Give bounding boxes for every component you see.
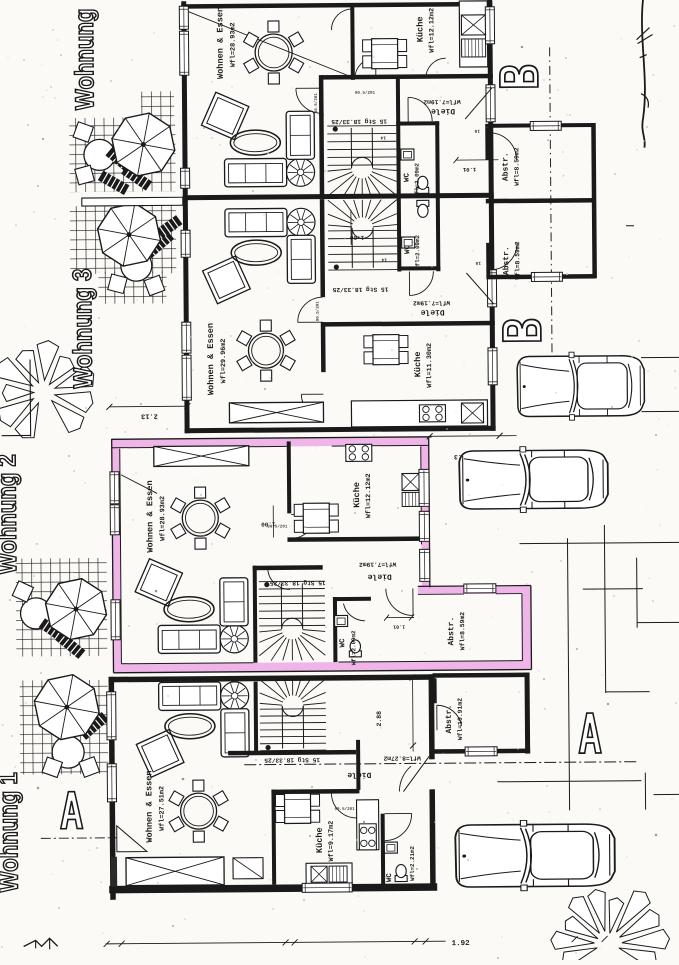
wash basin [402,237,415,248]
entry arc A [399,766,411,791]
entry door leaf unit1 [465,88,492,119]
pink abst right wall [522,586,532,670]
svg-text:10: 10 [475,260,481,266]
left wall unit A [109,677,116,900]
car1 bay line top [641,356,679,358]
pink kitchen wall [287,441,292,513]
svg-text:Abstr.: Abstr. [502,246,511,275]
bottom dimension line [106,941,446,944]
terrace table 2 [121,250,152,281]
stairs unit 2 [328,229,397,232]
window [419,469,429,506]
lounger [79,712,109,740]
door wc 2 [409,271,433,295]
svg-text:Abstr.: Abstr. [445,705,454,734]
door wc 1 [408,97,432,121]
door abst 2 [490,243,517,270]
svg-text:Abstr.: Abstr. [501,152,510,181]
svg-text:Wohnen & Essen: Wohnen & Essen [145,480,156,552]
svg-text:Diele: Diele [347,770,371,779]
svg-text:Diele: Diele [431,106,455,115]
svg-text:15 Stg 18.33/25: 15 Stg 18.33/25 [331,118,387,125]
kitchen table unit1 [363,40,374,52]
dining table unit 2 [248,333,283,368]
wc wall 1 [396,121,439,125]
svg-text:1.92: 1.92 [452,939,471,948]
svg-text:Wfl=7.19m2: Wfl=7.19m2 [359,561,396,568]
sideboard pink [154,446,249,467]
pink wc wall [333,597,338,662]
unit A kitchen walls [271,790,276,885]
coffee table [231,240,281,265]
dim 2.88 [412,677,415,751]
svg-text:14: 14 [380,135,386,140]
abst top wall [485,123,595,128]
letter B house entry 1 [500,65,538,87]
scan smudge [111,857,117,887]
abstA right wall [525,673,531,754]
sofa group unit A [136,682,250,778]
armchair [203,256,251,304]
lounger [98,171,130,195]
toilet [395,865,407,882]
door living unit1 [296,88,321,113]
sofa [158,625,220,653]
cut label Wohnung 1 [0,773,23,892]
svg-text:Wfl=7.19m2: Wfl=7.19m2 [413,299,450,306]
dim line 1.00 pink [272,506,274,538]
unit 1 kitchen wall [350,7,355,80]
door abst 1 [489,133,516,160]
label Wohnung top [74,10,99,110]
pink unit roof slope line [121,474,157,493]
pink left wall [112,440,122,673]
dim line 1.00 u2 [350,210,352,245]
wash basin [401,149,414,160]
pink top wall [112,437,429,447]
window [531,272,562,281]
side sofa [221,709,249,757]
svg-text:Küche: Küche [315,827,325,853]
bottom wall unit 2 [185,426,496,433]
car1 bay line bottom [641,410,679,412]
svg-text:WC: WC [385,873,394,883]
svg-text:15 Stg 18.33/25: 15 Stg 18.33/25 [264,756,320,763]
window [182,355,191,400]
unit A wc [381,814,386,885]
terrace hatch pink unit [16,558,108,657]
planter terrace divider [82,197,183,206]
lounger [144,231,174,259]
divide wall units 1-2 [183,193,494,200]
sofa group unit 2 [202,208,316,304]
pink bottom wall [113,661,531,673]
car 3 [455,820,615,892]
svg-text:10: 10 [474,128,480,134]
svg-text:WC: WC [338,638,347,648]
round chair [286,158,314,186]
coffee table [164,597,214,622]
toilet [417,176,429,193]
letter A unit A [60,792,82,829]
side sofa [286,111,314,159]
svg-text:Küche: Küche [415,16,425,42]
pink kitchen bottom wall [287,536,421,542]
svg-text:Wfl=9.17m2: Wfl=9.17m2 [327,821,336,862]
parking line vertical [567,538,569,810]
window [110,505,119,535]
svg-text:Wfl=7.19m2: Wfl=7.19m2 [423,98,460,105]
door arc diele 1 [355,58,376,79]
dining table unit A [180,793,216,829]
wc wall u2 [397,197,402,272]
stove [359,824,376,850]
sofa group unit 1 [201,91,315,187]
svg-text:Wfl=2.21m2: Wfl=2.21m2 [409,846,416,881]
stairs unit A [260,708,326,711]
terrace chair [42,757,62,777]
boundary dashed vertical [550,47,552,355]
unit A entry door [403,756,429,791]
wash basin [384,842,397,853]
armchair [135,559,182,606]
window [181,230,190,257]
sink [461,403,483,423]
svg-text:Wfl=8.59m2: Wfl=8.59m2 [459,612,466,651]
lounger [39,618,70,644]
door kitchen-diele 1 [426,58,446,78]
terrace chair [75,165,95,185]
svg-text:1.01: 1.01 [393,624,405,630]
door kitchen pink [291,514,315,538]
lounger [105,147,135,175]
dining table pink [182,500,218,536]
terrace chair [12,581,33,602]
kitchen table pink [294,504,305,516]
svg-text:1.00: 1.00 [261,521,276,528]
appliance [329,866,347,882]
window [181,168,190,188]
abst right wall [591,123,597,278]
site corner h [2,434,31,436]
cut label Wohnung 2 [0,455,22,574]
window [465,747,497,756]
appliance [402,492,419,506]
door abst pink [386,588,413,615]
svg-text:Wohnen & Essen: Wohnen & Essen [215,7,226,79]
parasol 4 [34,675,99,740]
sink [461,15,485,35]
right wall unit A upper [429,674,435,759]
terrace chair [79,757,100,778]
svg-text:Wfl=2.09m2: Wfl=2.09m2 [414,162,421,197]
car 1 [517,352,645,421]
svg-text:Wfl=12.12m2: Wfl=12.12m2 [427,8,436,53]
coffee table [230,130,280,155]
stair shaft left wall unit1 [319,113,324,196]
site line [497,781,641,782]
terrace hatch unit1 [141,91,174,117]
svg-text:1.01: 1.01 [462,166,476,173]
site dash-dot line [244,762,638,765]
unit 1 stair-wc wall [396,79,401,197]
side sofa [287,235,315,283]
terrace chair [108,274,128,294]
pink abst top wall [418,586,531,595]
window [179,31,188,75]
window [111,600,120,640]
window [486,85,495,122]
unit 2 kitchen counter [351,400,487,427]
car 2 [459,446,608,513]
svg-text:Wfl=8.27m2: Wfl=8.27m2 [383,754,420,761]
window A bottom [302,883,352,892]
window [419,511,429,541]
appliance [462,39,486,57]
terrace table 4 [52,736,84,768]
dim 2.13 [109,405,187,408]
svg-text:Wfl=8.59m2: Wfl=8.59m2 [513,147,520,186]
svg-text:Wfl=28.93m2: Wfl=28.93m2 [228,22,237,67]
tick right of abst [626,225,634,227]
toilet [349,640,361,657]
door kitchen 2 [301,394,323,416]
window [110,472,119,504]
terrace chair [73,122,93,142]
stove [346,444,372,461]
window [179,6,188,29]
kitchen table A [275,794,286,806]
door abstA [437,705,462,726]
stairs pink unit [259,580,325,583]
svg-text:WC: WC [403,244,412,254]
window [487,270,496,307]
pink diele wall [253,566,258,663]
lounger [55,631,85,659]
svg-text:1.00: 1.00 [349,234,364,241]
cabinet A [233,858,263,879]
round chair [287,208,315,236]
right wall units 1-2 [487,0,495,431]
tree top-right [641,0,645,148]
sofa [159,682,221,710]
svg-text:WC: WC [403,172,412,182]
tree top-left [15,403,39,438]
coffee table [165,714,215,739]
terrace table 1 [84,139,115,170]
svg-text:15 Stg 18.33/25: 15 Stg 18.33/25 [270,579,326,586]
unit A kitchen counter [357,800,379,850]
lounger [121,165,152,191]
top wall unit 1 [181,2,492,9]
sofa [225,208,287,236]
pink right wall [421,437,430,587]
svg-text:Wfl=11.30m2: Wfl=11.30m2 [425,343,434,388]
sideboard A [126,857,224,886]
round chair [220,625,248,653]
label Wohnung 3 [72,269,97,388]
side sofa [220,578,248,626]
wc right wall 1 [435,121,440,196]
parking line horizontal [520,542,679,543]
toilet [417,200,429,217]
letter A parking [579,713,601,753]
site line v [644,773,646,810]
svg-text:Wfl=10.91m2: Wfl=10.91m2 [457,698,464,740]
wall diele 2 [323,321,495,327]
parking tick 3 [606,691,650,693]
left wall units 1-2 [181,1,189,433]
top wall unit A [109,674,435,682]
sofa group pink [135,558,249,654]
kitchen wall u2b [321,322,326,372]
window [485,7,494,44]
terrace hatch unit A [20,680,109,775]
door kitchen A [331,793,356,818]
parasol 1 [112,113,175,176]
abstA left wall [433,678,437,703]
svg-text:Abstr.: Abstr. [447,617,456,646]
door wc pink [343,603,365,621]
wall diele A [228,750,356,756]
window [182,322,191,353]
parking tick [583,588,643,590]
abstA top wall [433,673,530,678]
parasol 2 [97,203,160,266]
parking tick 2 [637,621,679,623]
stair wall u2 [320,199,325,297]
door arc kitchen 1 [331,9,352,30]
letter B house entry 2 [503,319,541,341]
abst mid wall [486,198,596,203]
svg-text:Wfl=29.96m2: Wfl=29.96m2 [219,338,228,383]
svg-text:14: 14 [381,257,387,262]
abst left wall b [486,243,490,277]
svg-text:Wfl=2.09m2: Wfl=2.09m2 [350,630,357,665]
window A left 1 [107,692,116,740]
terrace chair [144,275,165,296]
stove [419,405,445,422]
right wall unit A lower [429,789,435,889]
svg-text:Wfl=2.09m2: Wfl=2.09m2 [414,234,421,269]
svg-text:15 Stg 18.33/25: 15 Stg 18.33/25 [332,286,388,293]
wash basin [335,615,348,626]
window [420,549,430,581]
window A left 2 [107,764,116,802]
door living unit2 [298,297,323,322]
svg-text:Wfl=27.51m2: Wfl=27.51m2 [157,786,166,831]
svg-text:Diele: Diele [368,572,392,581]
svg-text:Küche: Küche [352,482,362,508]
door living pink [268,567,290,589]
svg-text:2.88: 2.88 [376,711,383,727]
parasol 3 [45,578,106,639]
lounger [152,215,183,241]
armchair [201,92,248,139]
svg-text:2.13: 2.13 [141,411,158,419]
dining table unit 1 [255,34,292,71]
terrace hatch unit2 [70,205,177,274]
svg-text:Wohnen & Essen: Wohnen & Essen [206,323,217,395]
unit 1 kitchen counter [459,1,488,67]
abst left wall a [485,128,489,160]
wall kitchen A right [356,740,360,790]
terrace door triangle A [117,826,147,852]
site line h [653,793,679,795]
abst bottom wall [486,274,596,279]
dim 2.3 [429,435,517,438]
svg-text:Küche: Küche [413,351,423,377]
parking line vertical 2 [604,525,605,693]
window [530,121,561,130]
svg-text:Wfl=8.59m2: Wfl=8.59m2 [514,241,521,280]
sideboard unit 2 [229,402,323,423]
round chair [221,682,249,710]
door wc A [385,813,412,840]
sink [311,866,327,882]
tree bottom-right [562,948,597,965]
site corner v [29,359,32,436]
sink [402,473,419,490]
shrub marks bottom left [24,938,58,946]
dash-dot left [41,837,117,840]
abstA bottom wall [433,749,530,754]
bottom wall unit A [109,883,437,893]
svg-text:Wfl=12.12m2: Wfl=12.12m2 [364,473,373,518]
kitchen table unit2 [364,336,375,348]
living-corridor wall unit1 [319,75,324,116]
wall diele 1 [321,74,493,80]
svg-text:Diele: Diele [420,307,444,316]
stairs unit 1 [327,125,396,128]
parking line v3 [636,558,639,628]
sofa [224,158,286,186]
terrace table 3 [20,598,51,629]
armchair [136,730,184,778]
window [488,348,497,385]
unit 1 roof slope line [187,10,354,79]
entry door leaf unit2 [466,273,493,304]
svg-text:Wfl=28.93m2: Wfl=28.93m2 [158,496,167,541]
window abst pink [464,584,496,593]
svg-text:Wohnen & Essen: Wohnen & Essen [144,770,155,842]
unit A stair walls [254,682,259,755]
